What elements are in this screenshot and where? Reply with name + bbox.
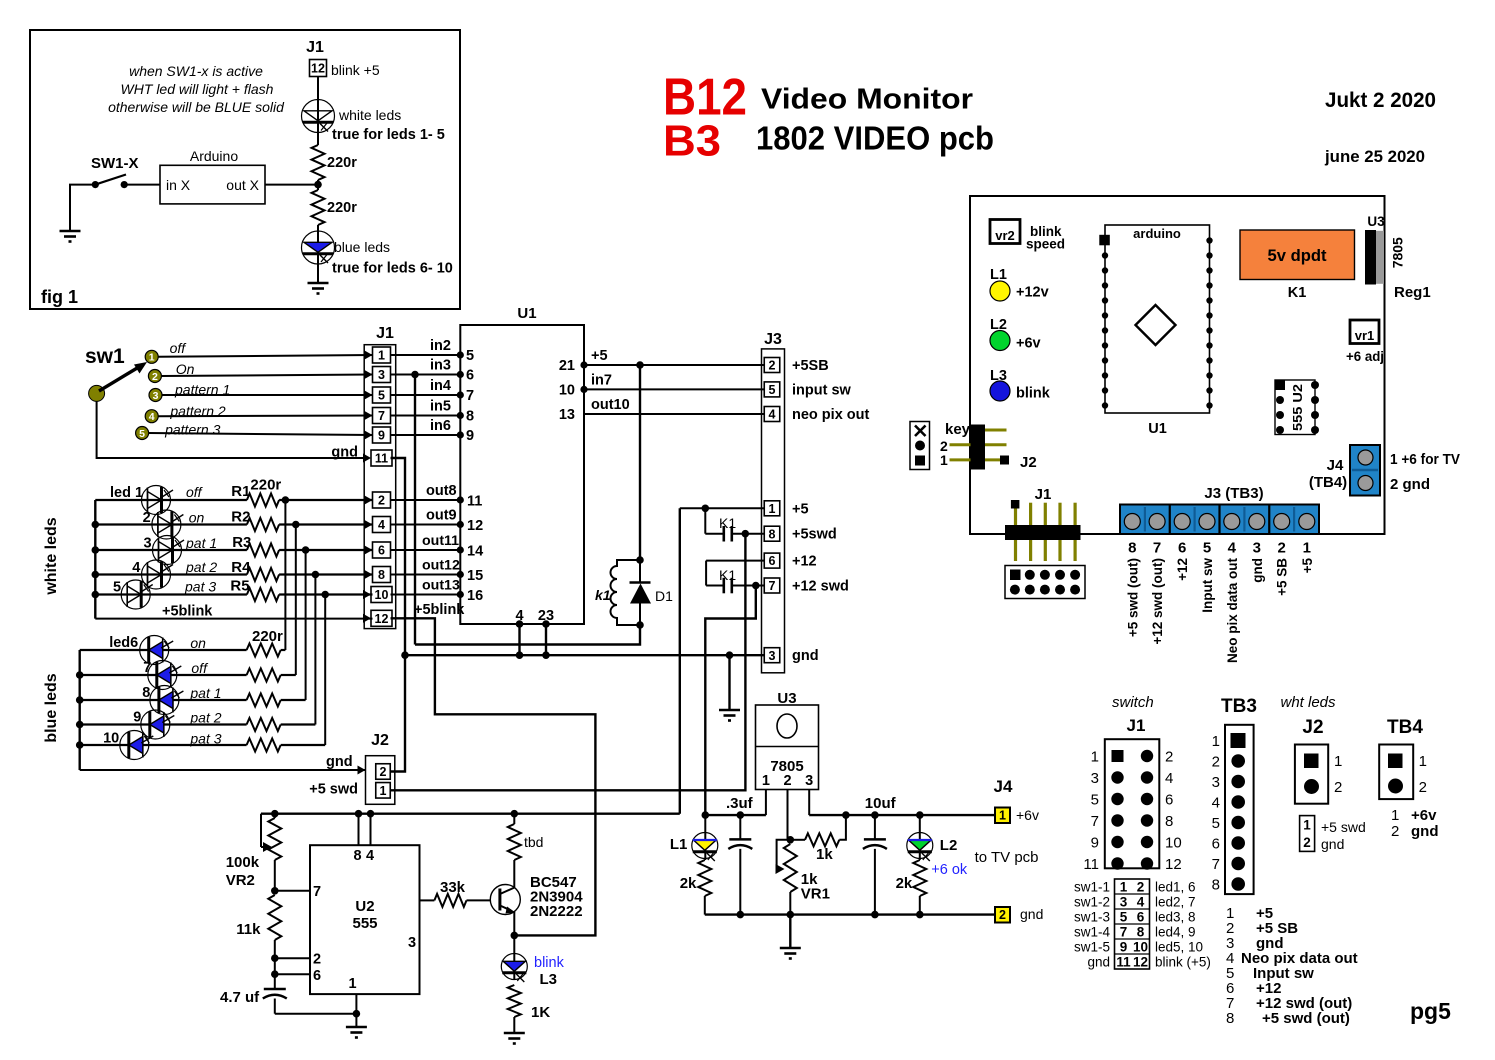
pcb arduino module U1 bbox=[1105, 225, 1210, 413]
led L2 bbox=[919, 815, 921, 860]
wire 7805 pin1 bbox=[765, 790, 767, 816]
wire U1 pin21 +5 to J3 pin2 bbox=[584, 364, 764, 366]
svg-text:8: 8 bbox=[1226, 1010, 1234, 1027]
led L1 bbox=[704, 815, 706, 860]
table J1 pin diagram bbox=[1105, 739, 1160, 868]
J4 pin 1 bbox=[995, 808, 1010, 824]
wire +5 rail down bbox=[679, 508, 681, 813]
wire J2 pin1 +5swd bbox=[390, 534, 745, 791]
svg-text:2: 2 bbox=[1419, 779, 1427, 796]
svg-text:U1: U1 bbox=[517, 305, 536, 322]
input bus wire bbox=[705, 814, 766, 816]
svg-text:VR1: VR1 bbox=[801, 886, 830, 903]
capacitor .3uf bbox=[739, 815, 741, 839]
resistor 220r blue row 8 bbox=[247, 694, 281, 707]
svg-text:2: 2 bbox=[1334, 779, 1342, 796]
J1 pin 12 bbox=[371, 610, 392, 626]
J1 pin 3 bbox=[373, 367, 391, 383]
svg-text:off: off bbox=[170, 340, 188, 356]
J1 pin 6 bbox=[373, 542, 391, 558]
svg-text:2: 2 bbox=[1391, 823, 1399, 840]
connector J2 outline bbox=[366, 756, 395, 805]
wire J2 pin2 to gnd bus bbox=[390, 655, 405, 771]
J1 pin 10 bbox=[371, 587, 392, 603]
svg-text:J4: J4 bbox=[994, 777, 1013, 796]
svg-text:out10: out10 bbox=[591, 397, 630, 413]
led L3 blink bbox=[501, 954, 527, 980]
svg-text:1: 1 bbox=[762, 773, 770, 789]
svg-text:10: 10 bbox=[375, 588, 389, 602]
svg-text:pattern 2: pattern 2 bbox=[169, 403, 225, 419]
svg-text:+12 swd (out): +12 swd (out) bbox=[1150, 558, 1165, 645]
fig1 arduino box bbox=[160, 165, 265, 204]
J1 pin 4 bbox=[373, 517, 391, 533]
svg-text:on: on bbox=[190, 635, 206, 651]
svg-text:2: 2 bbox=[999, 908, 1006, 922]
svg-text:B3: B3 bbox=[663, 117, 721, 166]
svg-text:4: 4 bbox=[132, 560, 140, 576]
fig1 wire switch to arduino bbox=[124, 184, 160, 186]
svg-text:4: 4 bbox=[1165, 770, 1173, 787]
wires J1 to U1 outputs bbox=[391, 499, 461, 501]
fig1 white led bbox=[302, 100, 335, 133]
svg-text:+5: +5 bbox=[792, 501, 809, 517]
svg-text:in4: in4 bbox=[430, 378, 451, 394]
node gnd junction bbox=[401, 651, 409, 659]
svg-text:2N2222: 2N2222 bbox=[530, 903, 583, 920]
node VR1 top bbox=[787, 836, 795, 844]
svg-text:TB4: TB4 bbox=[1387, 717, 1423, 738]
led3 white bbox=[153, 536, 182, 565]
resistor 11k bbox=[268, 895, 281, 940]
svg-text:vr2: vr2 bbox=[995, 228, 1015, 243]
svg-text:blue leds: blue leds bbox=[43, 673, 60, 742]
svg-text:WHT led will light + flash: WHT led will light + flash bbox=[121, 81, 274, 97]
led1 white bbox=[142, 486, 171, 515]
svg-text:4: 4 bbox=[366, 848, 374, 864]
svg-text:J4: J4 bbox=[1327, 457, 1344, 474]
svg-text:2: 2 bbox=[783, 773, 791, 789]
svg-text:true for leds 1- 5: true for leds 1- 5 bbox=[332, 127, 445, 143]
ic U1 outline bbox=[460, 325, 584, 624]
svg-text:U3: U3 bbox=[777, 690, 796, 707]
svg-text:8: 8 bbox=[1165, 813, 1173, 830]
pcb terminal J4 TB4 bbox=[1350, 445, 1380, 496]
svg-text:1: 1 bbox=[149, 352, 155, 364]
svg-text:led 1: led 1 bbox=[110, 485, 143, 501]
svg-text:(TB4): (TB4) bbox=[1309, 474, 1347, 491]
wire white led row 1 bbox=[95, 499, 247, 501]
svg-text:Jukt 2 2020: Jukt 2 2020 bbox=[1325, 89, 1436, 112]
svg-text:5: 5 bbox=[1091, 792, 1099, 809]
svg-text:3: 3 bbox=[153, 390, 159, 402]
wire +12swd down bbox=[705, 586, 756, 816]
svg-text:R5: R5 bbox=[230, 578, 249, 595]
fig1 wire switch left to ground bbox=[70, 185, 95, 231]
svg-text:5: 5 bbox=[113, 580, 121, 596]
svg-text:tbd: tbd bbox=[524, 834, 543, 850]
wire 7805 pin3 bbox=[808, 790, 810, 816]
svg-text:U3: U3 bbox=[1367, 214, 1385, 229]
fig1 wire node bbox=[317, 180, 319, 190]
pot VR2 100k bbox=[260, 814, 262, 847]
svg-text:2: 2 bbox=[1165, 749, 1173, 766]
svg-text:9: 9 bbox=[466, 428, 474, 444]
pcb relay K1 5v dpdt bbox=[1240, 230, 1355, 280]
U1 right pin 21 +5 bbox=[580, 361, 587, 368]
svg-text:out11: out11 bbox=[422, 533, 459, 549]
resistor R3 220r bbox=[247, 544, 279, 557]
svg-text:1: 1 bbox=[1334, 753, 1342, 770]
svg-text:L2: L2 bbox=[940, 837, 958, 854]
svg-text:led4, 9: led4, 9 bbox=[1155, 925, 1196, 940]
U1 right pin 10 in7 bbox=[580, 386, 587, 393]
svg-text:+5: +5 bbox=[591, 348, 608, 364]
svg-text:out13: out13 bbox=[422, 578, 460, 594]
svg-text:1 +6 for TV: 1 +6 for TV bbox=[1390, 451, 1460, 468]
svg-text:8: 8 bbox=[353, 848, 361, 864]
svg-text:VR2: VR2 bbox=[226, 872, 255, 889]
fig1 frame bbox=[30, 30, 460, 309]
wire drive drop led10 bbox=[324, 595, 326, 746]
svg-text:3: 3 bbox=[144, 536, 152, 552]
J1 pin 5 bbox=[373, 387, 391, 403]
svg-text:+12: +12 bbox=[1175, 558, 1190, 581]
svg-text:6: 6 bbox=[1212, 836, 1220, 853]
pcb connector J2 bbox=[985, 429, 1007, 432]
svg-text:Video Monitor: Video Monitor bbox=[761, 84, 973, 116]
pcb board outline bbox=[970, 196, 1385, 534]
svg-text:7: 7 bbox=[143, 660, 151, 676]
svg-text:1: 1 bbox=[1303, 818, 1311, 833]
svg-text:in7: in7 bbox=[591, 373, 612, 389]
transistor Q1 BC547 bbox=[490, 885, 520, 915]
svg-text:J2: J2 bbox=[1020, 454, 1037, 471]
regulator U3 7805 outline bbox=[756, 705, 819, 790]
svg-text:2k: 2k bbox=[896, 875, 913, 892]
wire drive drop led6 bbox=[284, 500, 286, 650]
J4 pin 2 bbox=[995, 907, 1010, 923]
svg-text:J3: J3 bbox=[764, 331, 782, 348]
svg-text:sw1-1: sw1-1 bbox=[1074, 880, 1110, 895]
svg-text:6: 6 bbox=[378, 544, 385, 558]
node led5 drive bbox=[321, 591, 329, 599]
svg-text:+5 swd: +5 swd bbox=[1321, 819, 1366, 835]
svg-text:3: 3 bbox=[1253, 540, 1261, 557]
svg-text:3: 3 bbox=[805, 773, 813, 789]
svg-text:16: 16 bbox=[467, 588, 483, 604]
wire white led row 4 bbox=[95, 573, 247, 575]
svg-text:1: 1 bbox=[769, 502, 776, 516]
svg-text:21: 21 bbox=[559, 358, 575, 374]
fig1 resistor 220r lower bbox=[312, 190, 325, 225]
svg-text:+5 swd (out): +5 swd (out) bbox=[1262, 1010, 1350, 1027]
resistor 220r blue row 7 bbox=[247, 669, 281, 682]
svg-text:key: key bbox=[945, 421, 971, 438]
svg-text:6: 6 bbox=[313, 968, 321, 984]
svg-text:+12: +12 bbox=[792, 554, 817, 570]
svg-text:2: 2 bbox=[1303, 835, 1311, 850]
svg-text:3: 3 bbox=[1091, 770, 1099, 787]
svg-text:4.7 uf: 4.7 uf bbox=[220, 989, 260, 1006]
wire 7805 pin2 bbox=[787, 790, 789, 840]
svg-text:sw1-3: sw1-3 bbox=[1074, 910, 1110, 925]
node led3 drive bbox=[302, 546, 310, 554]
svg-text:gnd: gnd bbox=[331, 445, 358, 461]
svg-text:4: 4 bbox=[1228, 540, 1237, 557]
fig1 J1 pin 12 bbox=[310, 60, 327, 77]
svg-text:555: 555 bbox=[352, 915, 377, 932]
svg-text:pat 2: pat 2 bbox=[185, 559, 217, 575]
svg-text:7: 7 bbox=[1091, 813, 1099, 830]
svg-text:555 U2: 555 U2 bbox=[1291, 384, 1305, 431]
svg-text:11: 11 bbox=[375, 452, 388, 466]
svg-text:TB3: TB3 bbox=[1221, 696, 1257, 717]
svg-text:led1, 6: led1, 6 bbox=[1155, 880, 1196, 895]
J1 pin 11 bbox=[371, 450, 392, 466]
led9 blue bbox=[141, 710, 170, 739]
svg-text:neo pix out: neo pix out bbox=[792, 407, 870, 423]
fig1 blue led bbox=[302, 231, 335, 264]
svg-text:led5, 10: led5, 10 bbox=[1155, 940, 1203, 955]
svg-text:8: 8 bbox=[142, 685, 150, 701]
gnd bus wire bbox=[405, 654, 764, 656]
svg-text:off: off bbox=[191, 660, 209, 676]
svg-text:10: 10 bbox=[1165, 835, 1182, 852]
J3 pin 8 bbox=[764, 526, 780, 541]
fig1 ground left bbox=[60, 231, 81, 242]
svg-text:7: 7 bbox=[313, 884, 321, 900]
svg-text:6: 6 bbox=[769, 554, 776, 568]
svg-text:led6: led6 bbox=[109, 635, 138, 651]
wires J1 to U1 inputs bbox=[391, 354, 461, 356]
svg-text:pat 1: pat 1 bbox=[185, 535, 217, 551]
svg-text:2: 2 bbox=[769, 359, 776, 373]
resistor R2 220r bbox=[247, 518, 279, 531]
svg-text:7: 7 bbox=[769, 579, 776, 593]
svg-text:7: 7 bbox=[1153, 540, 1161, 557]
svg-text:3: 3 bbox=[1120, 895, 1128, 910]
svg-text:2: 2 bbox=[313, 952, 321, 968]
svg-text:out9: out9 bbox=[426, 508, 457, 524]
node J3 gnd bbox=[726, 651, 734, 659]
svg-text:on: on bbox=[189, 510, 205, 526]
wire +5 to relay bbox=[639, 365, 641, 560]
svg-text:J1: J1 bbox=[1127, 716, 1146, 735]
wire to 555 pin7 bbox=[275, 890, 310, 892]
svg-text:sw1: sw1 bbox=[85, 345, 125, 368]
svg-text:8: 8 bbox=[1128, 540, 1136, 557]
white led bus wire bbox=[94, 500, 96, 619]
svg-text:pat 3: pat 3 bbox=[189, 731, 221, 747]
svg-text:1: 1 bbox=[1419, 753, 1427, 770]
svg-text:9: 9 bbox=[133, 710, 141, 726]
svg-text:5: 5 bbox=[466, 348, 474, 364]
svg-text:220r: 220r bbox=[252, 628, 283, 645]
resistor R1 220r bbox=[247, 494, 279, 507]
svg-text:1k: 1k bbox=[816, 846, 833, 863]
svg-text:2k: 2k bbox=[680, 875, 697, 892]
svg-text:33k: 33k bbox=[440, 879, 466, 896]
resistor 1K bbox=[508, 985, 521, 1017]
svg-text:U2: U2 bbox=[355, 898, 374, 915]
svg-text:out8: out8 bbox=[426, 483, 457, 499]
svg-text:+6v: +6v bbox=[1411, 807, 1437, 824]
J3 pin 3 bbox=[764, 648, 780, 663]
svg-text:2: 2 bbox=[1212, 754, 1220, 771]
switch sw1 wires to J1 bbox=[158, 355, 372, 357]
wire +5 rail to J3 pin1 bbox=[680, 507, 764, 509]
svg-text:R4: R4 bbox=[231, 559, 251, 576]
led10 blue bbox=[120, 731, 149, 760]
svg-text:11: 11 bbox=[1116, 955, 1131, 970]
J1 pin 2 bbox=[373, 492, 391, 508]
svg-text:K1: K1 bbox=[719, 515, 736, 531]
J3 pin 7 bbox=[764, 578, 780, 593]
wire emitter to node bbox=[513, 912, 515, 936]
svg-text:3: 3 bbox=[378, 368, 385, 382]
svg-text:+5blink: +5blink bbox=[162, 604, 213, 620]
pcb trimpot vr1 bbox=[1350, 320, 1379, 344]
svg-text:11k: 11k bbox=[236, 921, 261, 938]
svg-text:220r: 220r bbox=[327, 200, 357, 216]
pcb 2x5 pin header bbox=[1005, 566, 1085, 599]
resistor R5 220r bbox=[247, 588, 279, 601]
diode D1 bbox=[639, 560, 641, 583]
svg-text:+5SB: +5SB bbox=[792, 358, 829, 374]
svg-text:4: 4 bbox=[149, 411, 155, 423]
svg-text:Neo pix data out: Neo pix data out bbox=[1225, 558, 1240, 664]
svg-text:10: 10 bbox=[103, 731, 119, 747]
svg-text:1: 1 bbox=[380, 784, 387, 798]
svg-text:+6v: +6v bbox=[1016, 807, 1039, 823]
svg-text:blink (+5): blink (+5) bbox=[1155, 955, 1211, 970]
svg-text:out X: out X bbox=[226, 177, 259, 193]
resistor 2k left bbox=[698, 860, 711, 896]
resistor 220r blue row 6 bbox=[247, 644, 281, 657]
svg-text:J1: J1 bbox=[376, 325, 394, 342]
wire sw1 common to gnd pin11 bbox=[97, 401, 365, 458]
svg-text:6: 6 bbox=[466, 368, 474, 384]
wire out10 to J3 pin4 bbox=[584, 413, 764, 415]
svg-text:blink: blink bbox=[1016, 386, 1051, 402]
svg-text:J2: J2 bbox=[1302, 717, 1323, 738]
wire white led row 3 bbox=[95, 549, 247, 551]
table sw1 wiring bbox=[1115, 879, 1150, 969]
fig1 wire pin12 to white led bbox=[317, 77, 319, 146]
svg-text:+5 swd: +5 swd bbox=[309, 782, 358, 798]
svg-text:4: 4 bbox=[378, 518, 385, 532]
svg-text:pattern 3: pattern 3 bbox=[164, 422, 220, 438]
table J2 pin diagram bbox=[1295, 745, 1328, 804]
node D1 bottom bbox=[636, 621, 644, 629]
svg-text:15: 15 bbox=[467, 568, 483, 584]
pcb trimpot vr2 bbox=[990, 220, 1020, 244]
svg-text:5: 5 bbox=[139, 428, 145, 440]
svg-text:+12v: +12v bbox=[1016, 285, 1049, 301]
svg-text:+5: +5 bbox=[1300, 558, 1315, 574]
svg-text:9: 9 bbox=[1091, 835, 1099, 852]
pcb key legend bbox=[910, 422, 930, 470]
wire white led row 5 bbox=[95, 593, 247, 595]
J1 pin 9 bbox=[373, 427, 391, 443]
svg-text:7: 7 bbox=[466, 388, 474, 404]
svg-text:11: 11 bbox=[467, 494, 482, 510]
wire gnd pin11 drop bbox=[391, 458, 406, 655]
wire cap to 555 pin1 gnd bbox=[275, 1013, 357, 1015]
wire blue led row 9 bbox=[80, 723, 247, 725]
svg-text:SW1-X: SW1-X bbox=[91, 155, 139, 172]
svg-text:sw1-5: sw1-5 bbox=[1074, 940, 1110, 955]
pcb regulator U3 bbox=[1365, 230, 1376, 285]
svg-text:when SW1-x is active: when SW1-x is active bbox=[129, 63, 263, 79]
svg-text:1: 1 bbox=[1391, 807, 1399, 824]
J3 pin 5 bbox=[764, 382, 780, 397]
node 555 pin2 bbox=[271, 954, 279, 962]
svg-text:D1: D1 bbox=[655, 588, 673, 604]
wire white led row 2 bbox=[95, 523, 247, 525]
node in3 junction bbox=[411, 371, 419, 379]
svg-text:1802 VIDEO pcb: 1802 VIDEO pcb bbox=[756, 120, 994, 157]
svg-text:arduino: arduino bbox=[1133, 226, 1181, 241]
svg-text:R3: R3 bbox=[232, 534, 251, 551]
svg-text:pg5: pg5 bbox=[1410, 998, 1451, 1024]
svg-text:8: 8 bbox=[378, 568, 385, 582]
svg-text:Reg1: Reg1 bbox=[1394, 284, 1431, 301]
svg-text:1: 1 bbox=[1091, 749, 1099, 766]
svg-text:1: 1 bbox=[940, 452, 948, 468]
relay contact K1 lower bbox=[705, 561, 707, 586]
led7 blue bbox=[148, 661, 177, 690]
J1 pin 8 bbox=[373, 567, 391, 583]
svg-text:gnd: gnd bbox=[1087, 955, 1110, 970]
wire in3 drop to k1 bus bbox=[414, 375, 416, 645]
node 555 pin7 bbox=[271, 887, 279, 895]
wire blue led row 7 bbox=[80, 674, 247, 676]
svg-text:4: 4 bbox=[769, 408, 776, 422]
J1 pin 1 bbox=[373, 347, 391, 363]
svg-text:L1: L1 bbox=[670, 836, 688, 853]
svg-text:12: 12 bbox=[1165, 856, 1182, 873]
wire blue led row 8 bbox=[80, 699, 247, 701]
svg-text:sw1-2: sw1-2 bbox=[1074, 895, 1110, 910]
svg-text:gnd: gnd bbox=[1250, 558, 1265, 583]
svg-text:1: 1 bbox=[999, 809, 1006, 823]
svg-text:+5 swd (out): +5 swd (out) bbox=[1125, 558, 1140, 637]
svg-text:+12 swd: +12 swd bbox=[792, 579, 849, 595]
J3 pin 1 bbox=[764, 501, 780, 516]
svg-text:9: 9 bbox=[1120, 940, 1128, 955]
svg-text:220r: 220r bbox=[250, 477, 281, 494]
svg-text:blue leds: blue leds bbox=[334, 239, 390, 255]
fig1 node junction bbox=[314, 181, 322, 189]
svg-text:9: 9 bbox=[378, 429, 385, 443]
resistor tbd bbox=[513, 814, 515, 824]
svg-text:to TV pcb: to TV pcb bbox=[975, 849, 1039, 866]
table J2 wiring bbox=[1300, 816, 1315, 852]
svg-text:gnd: gnd bbox=[1411, 823, 1439, 840]
led4 white bbox=[142, 560, 171, 589]
led8 blue bbox=[150, 686, 179, 715]
svg-text:7: 7 bbox=[378, 409, 385, 423]
svg-text:7: 7 bbox=[1120, 925, 1128, 940]
svg-text:4: 4 bbox=[1137, 895, 1145, 910]
svg-text:12: 12 bbox=[375, 612, 389, 626]
connector J1 outline bbox=[364, 345, 396, 629]
svg-text:sw1-4: sw1-4 bbox=[1074, 925, 1111, 940]
J2 pin 1 bbox=[376, 783, 391, 799]
ground at 555 bbox=[346, 1027, 367, 1038]
